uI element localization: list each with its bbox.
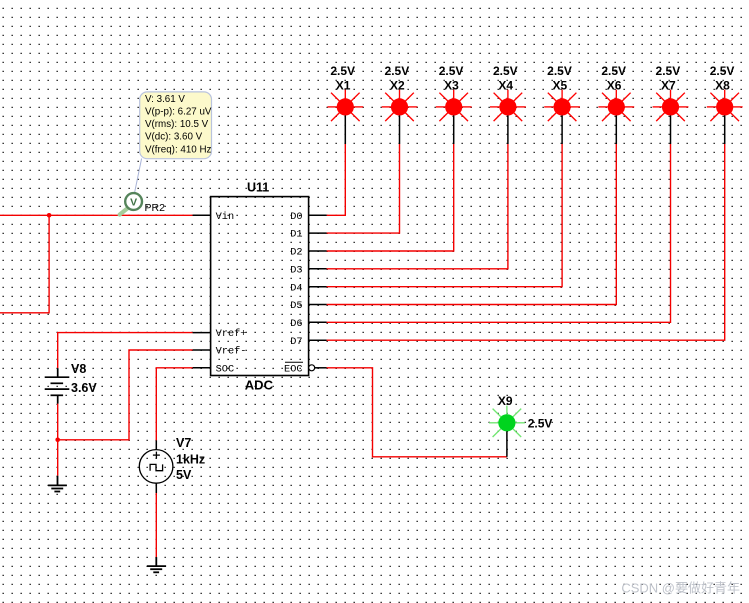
svg-text:X5: X5	[553, 78, 568, 92]
svg-text:D3: D3	[290, 264, 302, 276]
svg-text:V7: V7	[176, 436, 191, 450]
svg-text:ADC: ADC	[245, 378, 274, 393]
svg-text:X6: X6	[607, 78, 622, 92]
svg-text:X7: X7	[661, 78, 676, 92]
junction: ground node below V8	[55, 438, 60, 443]
LED X1 (red indicator)	[327, 90, 363, 144]
svg-text:X2: X2	[390, 78, 405, 92]
svg-text:X1: X1	[336, 78, 351, 92]
svg-text:V: V	[130, 196, 137, 208]
svg-text:D0: D0	[290, 211, 302, 223]
svg-text:X3: X3	[444, 78, 459, 92]
battery V8	[45, 368, 70, 403]
wire: battery V8 bottom to ground node	[57, 404, 59, 476]
svg-text:X9: X9	[498, 394, 513, 408]
svg-text:EOC: EOC	[284, 363, 303, 375]
svg-text:V8: V8	[71, 362, 86, 376]
wire: EOC net to LED X9	[327, 368, 507, 457]
probe PR2 readout box	[140, 92, 212, 159]
svg-text:D2: D2	[290, 247, 302, 259]
pin D7	[290, 336, 326, 348]
wire: D2 net to LED X3	[327, 144, 454, 251]
svg-text:X8: X8	[715, 78, 730, 92]
wire: Vref+ net to battery V8 top	[58, 333, 193, 369]
svg-text:V(dc): 3.60 V: V(dc): 3.60 V	[145, 132, 203, 143]
svg-text:2.5V: 2.5V	[528, 416, 553, 430]
svg-text:PR2: PR2	[145, 202, 166, 214]
svg-text:2.5V: 2.5V	[547, 64, 572, 78]
LED X2 (red indicator)	[382, 90, 418, 144]
wire: V7 bottom to ground	[155, 493, 157, 557]
svg-text:1kHz: 1kHz	[176, 453, 205, 467]
pin D4	[290, 282, 326, 294]
svg-text:CSDN @要做好青年: CSDN @要做好青年	[621, 581, 740, 596]
svg-text:D1: D1	[290, 229, 302, 241]
clock source V7 (1kHz 5V)	[139, 440, 173, 493]
ground (V7 branch)	[147, 557, 166, 572]
pin Vref-	[193, 346, 247, 358]
LED X4 (red indicator)	[490, 90, 526, 144]
ADC U11 body	[211, 197, 309, 376]
pin Vref+	[193, 328, 247, 340]
wire: D7 net to LED X8	[327, 144, 725, 340]
LED X9 (green indicator)	[489, 406, 525, 457]
pin D2	[290, 247, 326, 259]
svg-text:U11: U11	[247, 180, 269, 194]
svg-text:2.5V: 2.5V	[439, 64, 464, 78]
ground (V8 / Vref- branch)	[48, 476, 67, 492]
svg-text:2.5V: 2.5V	[385, 64, 410, 78]
LED X8 (red indicator)	[707, 90, 743, 144]
wire: SOC net to clock V7 top	[156, 368, 192, 441]
svg-text:2.5V: 2.5V	[710, 64, 735, 78]
svg-text:V(p-p): 6.27 uV: V(p-p): 6.27 uV	[145, 107, 212, 118]
svg-text:2.5V: 2.5V	[601, 64, 626, 78]
LED X6 (red indicator)	[598, 90, 634, 144]
wire: branch from Vin junction down and out left edge	[0, 215, 49, 312]
pin D3	[290, 264, 326, 276]
pin EOC (active low, bubble)	[284, 362, 327, 375]
svg-text:2.5V: 2.5V	[656, 64, 681, 78]
wire: Vin net from left edge to U11 Vin	[0, 214, 193, 216]
svg-text:Vin: Vin	[216, 211, 235, 223]
wire: D3 net to LED X4	[327, 144, 508, 269]
LED X7 (red indicator)	[653, 90, 689, 144]
svg-text:X4: X4	[498, 78, 513, 92]
wire: D0 net to LED X1	[327, 144, 346, 215]
pin Vin	[193, 211, 235, 223]
pin D0	[290, 211, 326, 223]
wire: D1 net to LED X2	[327, 144, 400, 233]
pin SOC	[193, 363, 235, 375]
svg-text:5V: 5V	[176, 468, 192, 482]
svg-text:V: 3.61 V: V: 3.61 V	[145, 94, 185, 105]
wire: D5 net to LED X6	[327, 144, 617, 305]
pin D5	[290, 300, 326, 312]
svg-text:D5: D5	[290, 300, 302, 312]
probe PR2 body (V circle)	[125, 193, 142, 210]
wire: D6 net to LED X7	[327, 144, 671, 322]
pin D1	[290, 229, 326, 241]
svg-text:V(rms): 10.5 V: V(rms): 10.5 V	[145, 119, 209, 130]
svg-text:SOC: SOC	[216, 363, 235, 375]
LED X3 (red indicator)	[436, 90, 472, 144]
svg-text:Vref-: Vref-	[216, 346, 247, 358]
svg-text:V(freq): 410 Hz: V(freq): 410 Hz	[145, 144, 212, 155]
wire: Vref- net to ground node	[58, 350, 193, 440]
svg-text:2.5V: 2.5V	[493, 64, 518, 78]
svg-text:Vref+: Vref+	[216, 328, 247, 340]
junction: Vin wire node	[47, 213, 52, 218]
svg-text:D6: D6	[290, 318, 302, 330]
svg-text:D7: D7	[290, 336, 302, 348]
LED X5 (red indicator)	[544, 90, 580, 144]
svg-text:2.5V: 2.5V	[330, 64, 355, 78]
svg-text:D4: D4	[290, 282, 302, 294]
probe PR2 leader line	[135, 159, 142, 194]
svg-text:3.6V: 3.6V	[71, 381, 97, 395]
pin D6	[290, 318, 326, 330]
probe PR2 needle	[120, 207, 129, 214]
wire: D4 net to LED X5	[327, 144, 562, 287]
